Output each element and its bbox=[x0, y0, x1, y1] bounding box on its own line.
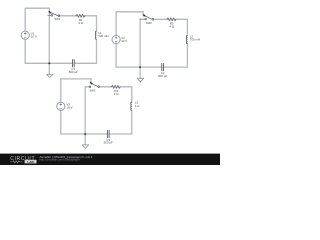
wire: C2 top rail resistor to right corner bbox=[177, 18, 187, 20]
wire: C1 bottom rail left of capacitor bbox=[25, 62, 72, 64]
resistor R1 bbox=[76, 14, 86, 17]
wire: C1 right edge upper bbox=[96, 16, 98, 31]
svg-text:500 μF: 500 μF bbox=[69, 70, 78, 74]
wire: C2 switch drop from elbow bbox=[142, 12, 144, 16]
svg-text:SW1: SW1 bbox=[54, 17, 60, 21]
wire: C1 top rail resistor to right corner bbox=[86, 15, 97, 17]
svg-text:700 mH: 700 mH bbox=[190, 38, 200, 42]
switch SW1 bbox=[48, 12, 60, 17]
capacitor C1 bbox=[73, 59, 75, 67]
wire: C2 bottom rail right of capacitor bbox=[164, 66, 188, 68]
ground GND3 bbox=[82, 145, 89, 148]
capacitor C2 bbox=[162, 63, 164, 71]
CircuitLab logo resistor line bbox=[10, 161, 22, 163]
wire: C3 right edge lower bbox=[131, 110, 133, 134]
wire: C1 switch/ground vertical at x=49.3 bbox=[48, 8, 50, 74]
svg-text:10 V: 10 V bbox=[121, 39, 127, 43]
inductor L2 bbox=[186, 35, 187, 43]
wire: C2 ground drop at x=140.1 bbox=[139, 19, 141, 78]
wire: C1 top rail switch to resistor bbox=[59, 15, 75, 17]
svg-text:LAB: LAB bbox=[27, 160, 34, 164]
wire: C3 switch drop from elbow bbox=[90, 79, 92, 84]
wire: C2 left edge upper bbox=[115, 12, 117, 36]
svg-text:1 H: 1 H bbox=[135, 104, 140, 108]
voltage source V1 bbox=[21, 31, 29, 39]
wire: C2 top rail switch to resistor bbox=[154, 18, 167, 20]
wire: C3 bottom rail left of capacitor bbox=[61, 133, 108, 135]
junction dot C2 ground node bbox=[139, 66, 141, 68]
ground GND1 bbox=[47, 75, 54, 78]
wire: C3 left edge upper bbox=[60, 79, 62, 102]
svg-text:http://circuitlab.com/c/8b5dyk: http://circuitlab.com/c/8b5dyk6q8v bbox=[40, 158, 81, 162]
svg-text:500 μF: 500 μF bbox=[158, 74, 167, 78]
ground GND2 bbox=[137, 78, 144, 82]
wire: C3 bottom rail right of capacitor bbox=[109, 133, 132, 135]
svg-text:500 mH: 500 mH bbox=[98, 34, 108, 38]
wire: C2 top rail from battery to switch elbow bbox=[116, 11, 143, 13]
wire: C3 top rail from battery to switch elbow bbox=[61, 78, 91, 80]
wire: C1 left edge lower (battery bottom lead) bbox=[24, 39, 26, 63]
wire: C3 top rail switch to resistor bbox=[100, 86, 111, 88]
resistor R3 bbox=[111, 85, 121, 88]
capacitor C3 bbox=[107, 130, 109, 138]
wire: C2 bottom rail left of capacitor bbox=[116, 66, 162, 68]
wire: C2 right edge upper bbox=[186, 19, 188, 35]
svg-text:500 μF: 500 μF bbox=[104, 141, 113, 145]
junction dot C1 ground node bbox=[48, 62, 50, 64]
switch SW3 bbox=[89, 83, 99, 88]
wire: C1 bottom rail right of capacitor bbox=[74, 62, 96, 64]
svg-text:10 V: 10 V bbox=[31, 35, 37, 39]
voltage source V2 bbox=[112, 35, 120, 43]
wire: C2 right edge lower bbox=[186, 44, 188, 68]
inductor L1 bbox=[95, 31, 96, 39]
resistor R2 bbox=[167, 18, 177, 21]
inductor L3 bbox=[131, 102, 132, 110]
svg-text:SW3: SW3 bbox=[89, 88, 95, 92]
svg-text:10 V: 10 V bbox=[67, 106, 73, 110]
voltage source V3 bbox=[57, 102, 65, 110]
svg-text:SW2: SW2 bbox=[146, 21, 152, 25]
wire: C3 top rail resistor to right corner bbox=[121, 86, 131, 88]
wire: C3 ground drop at x=85.2 bbox=[84, 87, 86, 145]
wire: C3 right edge upper bbox=[131, 87, 133, 102]
wire: C1 left edge upper (battery top lead) bbox=[24, 8, 26, 31]
junction dot C3 ground node bbox=[84, 133, 86, 135]
wire: C1 top rail from battery to switch elbow bbox=[25, 7, 49, 9]
wire: C1 right edge lower bbox=[96, 39, 98, 63]
switch SW2 bbox=[140, 15, 154, 20]
wire: C3 switch stub to ground corner bbox=[85, 86, 89, 88]
wire: C3 left edge lower bbox=[60, 110, 62, 134]
CircuitLab logo LAB box bbox=[25, 160, 37, 164]
wire: C2 left edge lower bbox=[115, 44, 117, 68]
